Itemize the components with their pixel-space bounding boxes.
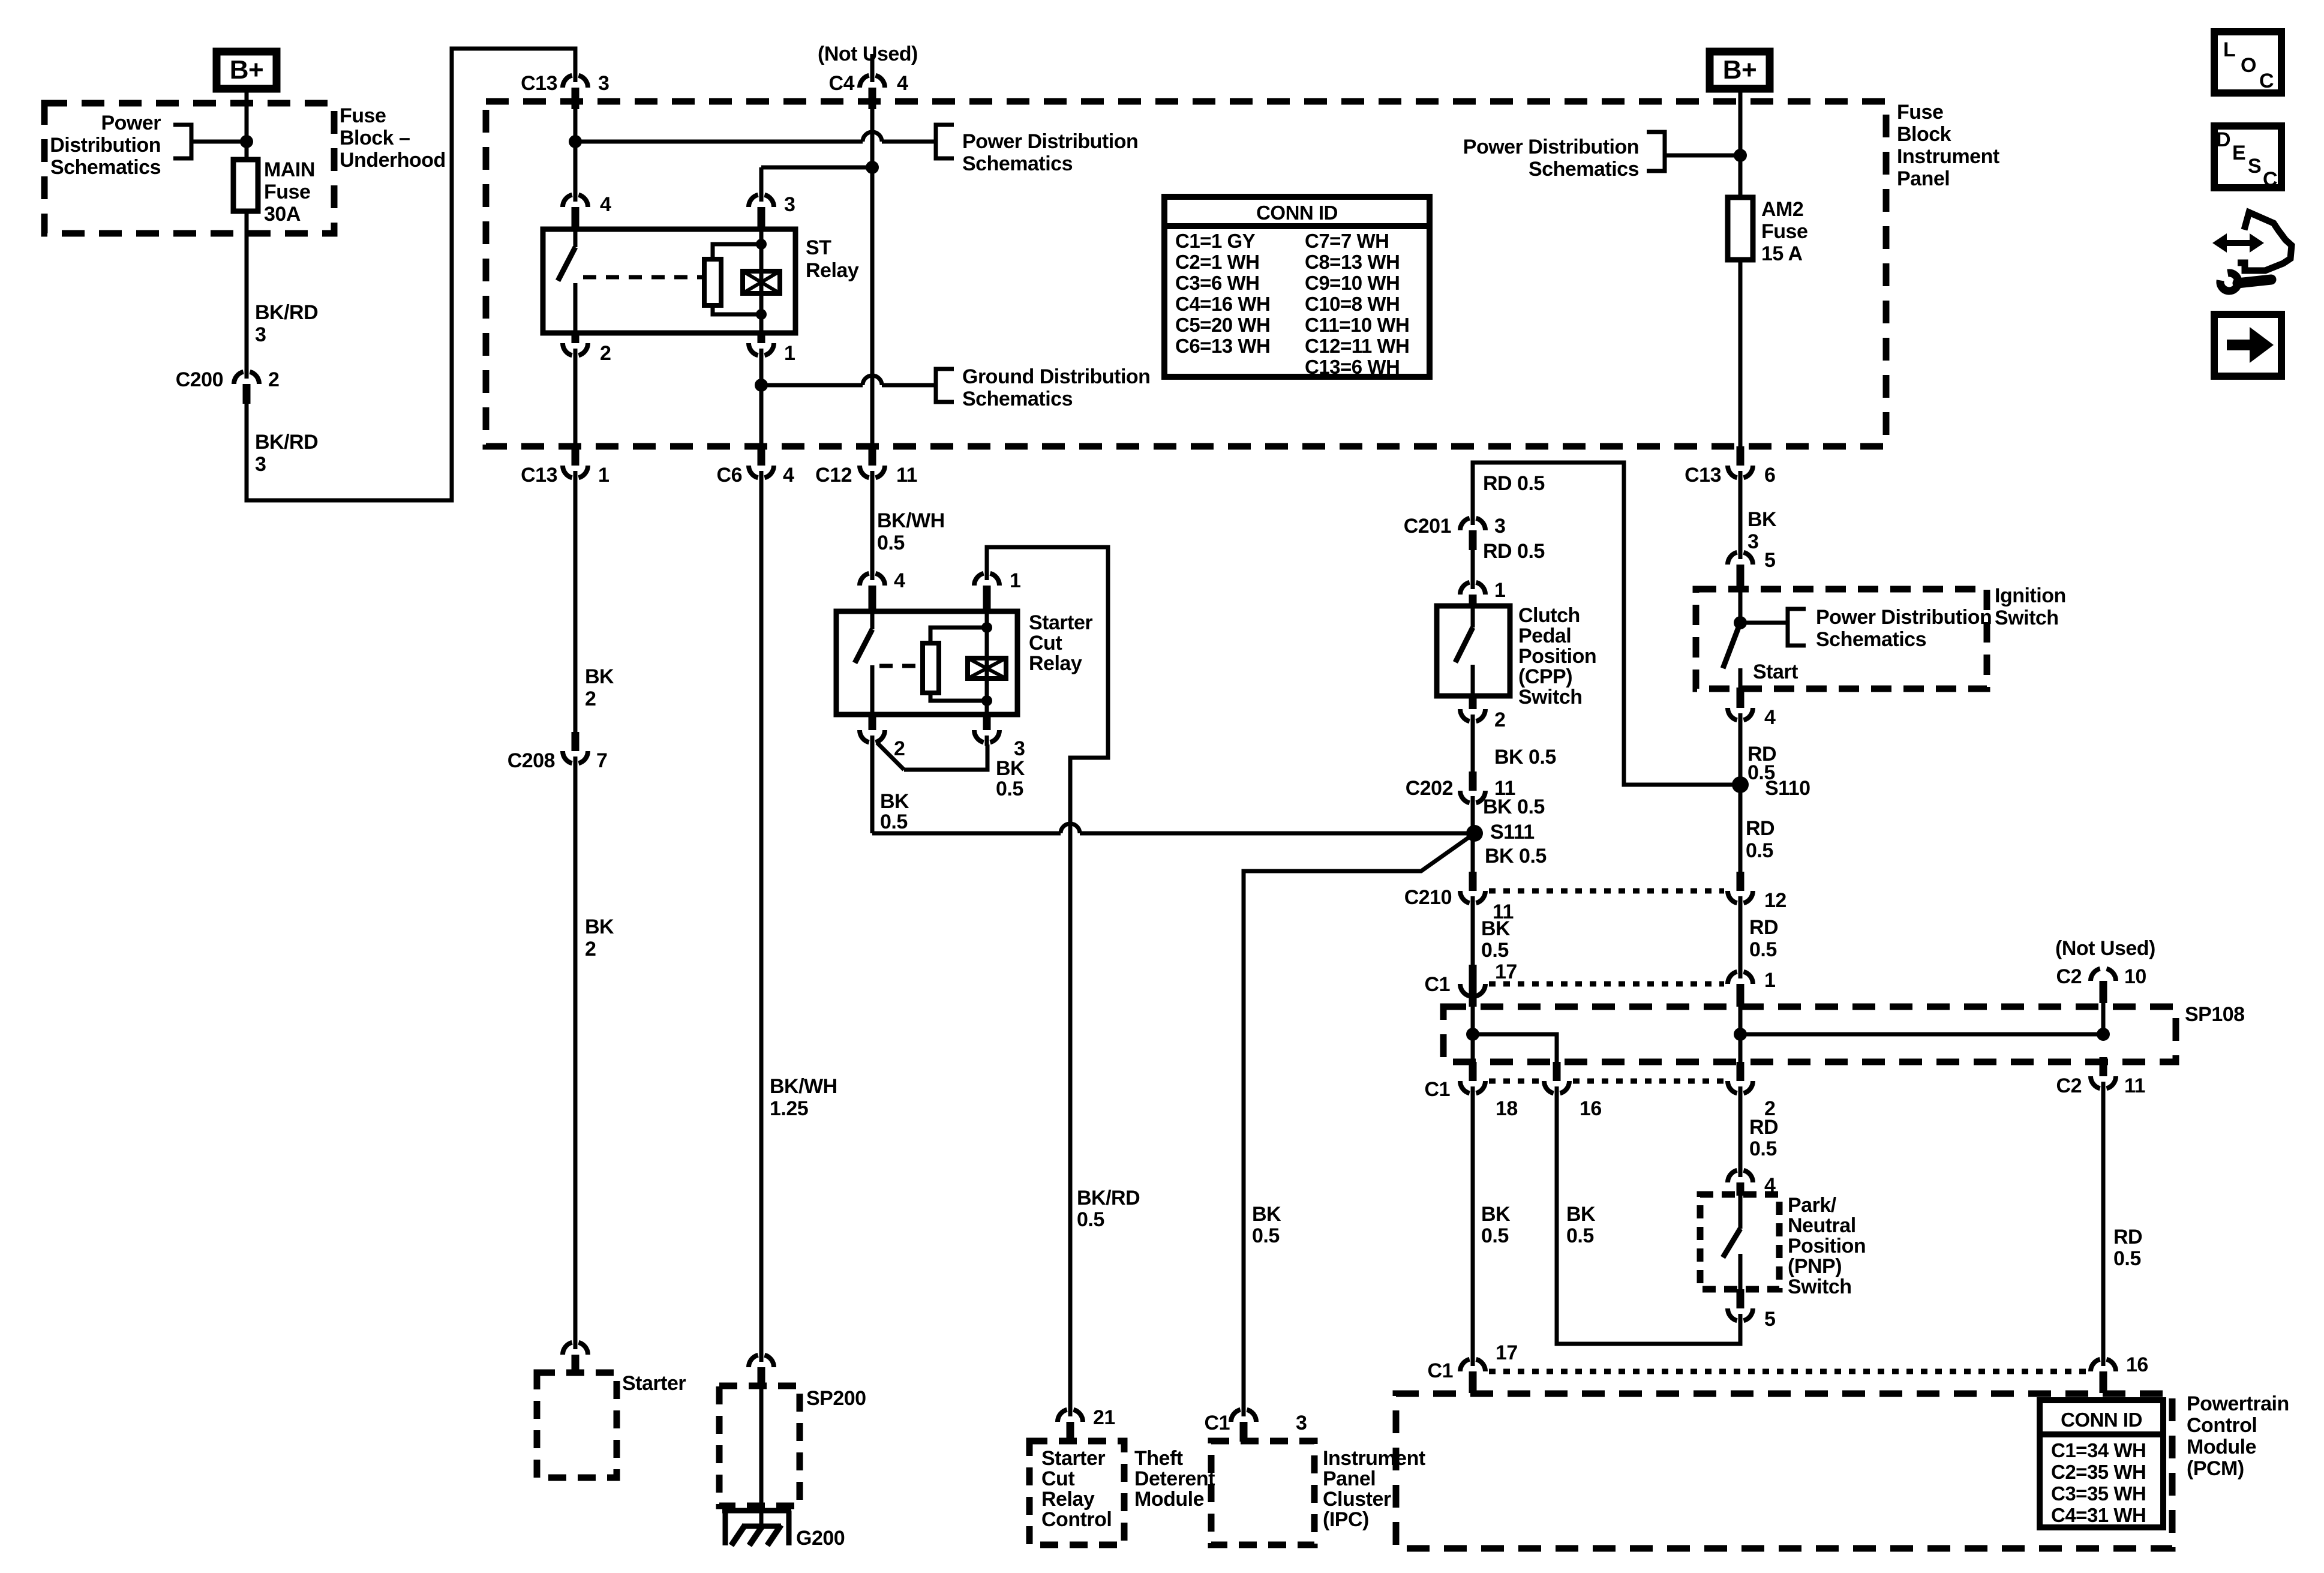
svg-text:C11=10 WH: C11=10 WH xyxy=(1305,314,1409,336)
svg-text:C1=34 WH: C1=34 WH xyxy=(2051,1439,2146,1461)
svg-text:Starter: Starter xyxy=(1041,1447,1105,1470)
svg-text:10: 10 xyxy=(2124,965,2146,988)
wire junction to Ground Distribution bracket (with hop over C4/C12 wire) xyxy=(761,383,863,388)
connector C13 pin 6 (box exit) xyxy=(1739,471,1743,481)
svg-text:Deterent: Deterent xyxy=(1134,1467,1215,1490)
svg-text:C6: C6 xyxy=(717,464,742,487)
svg-text:Schematics: Schematics xyxy=(1816,628,1926,651)
svg-text:Start: Start xyxy=(1753,661,1798,683)
wire S110 loop to C201 (RD 0.5) xyxy=(1473,463,1740,785)
svg-text:11: 11 xyxy=(896,464,917,487)
svg-text:D: D xyxy=(2216,128,2230,151)
svg-text:0.5: 0.5 xyxy=(877,532,905,554)
svg-text:4: 4 xyxy=(1764,706,1776,729)
svg-text:3: 3 xyxy=(598,72,609,95)
fuse AM2 15A xyxy=(1728,197,1753,260)
svg-text:3: 3 xyxy=(784,193,795,216)
connector C210 pin 12 xyxy=(1739,896,1743,906)
wire ignition pin 4 to S110 xyxy=(1739,722,1743,872)
svg-text:C201: C201 xyxy=(1404,515,1451,538)
icon forward arrow box xyxy=(2214,314,2281,376)
svg-text:17: 17 xyxy=(1496,1341,1518,1364)
dashed box Instrument Panel Cluster xyxy=(1211,1441,1314,1545)
wire pin 1 through SP108 xyxy=(1739,1005,1743,1062)
svg-text:C1: C1 xyxy=(1205,1412,1230,1434)
node junction SP108 left xyxy=(1466,1028,1479,1041)
svg-text:3: 3 xyxy=(1494,515,1505,538)
svg-text:(PCM): (PCM) xyxy=(2187,1457,2244,1480)
svg-text:C7=7 WH: C7=7 WH xyxy=(1305,230,1389,252)
svg-text:2: 2 xyxy=(600,342,611,365)
ST relay switch contact xyxy=(574,229,578,247)
wire pin 2 down to S111 bus xyxy=(870,745,875,833)
svg-text:Block: Block xyxy=(1897,123,1951,146)
dashed box Starter Cut Relay Control xyxy=(1029,1441,1124,1545)
dashed box Park/Neutral Position Switch xyxy=(1700,1194,1779,1289)
wire ignition feed to bracket xyxy=(1740,621,1788,625)
connector C202 pin 11 xyxy=(1471,796,1475,806)
connector pin 1 (into SP108) xyxy=(1739,968,1743,978)
ST relay coil resistor xyxy=(713,244,761,259)
svg-text:3: 3 xyxy=(255,323,266,346)
PNP switch pin 4 connector xyxy=(1739,1167,1743,1177)
svg-text:6: 6 xyxy=(1764,464,1775,487)
svg-text:C6=13 WH: C6=13 WH xyxy=(1175,335,1270,357)
svg-text:11: 11 xyxy=(2124,1074,2145,1097)
svg-text:Panel: Panel xyxy=(1323,1467,1376,1490)
wire C4 pin down through box xyxy=(870,107,875,446)
wire MAIN fuse to C200 xyxy=(245,211,249,370)
connector C1 pin 18 xyxy=(1471,1086,1475,1097)
svg-text:(PNP): (PNP) xyxy=(1788,1255,1842,1278)
svg-text:4: 4 xyxy=(783,464,794,487)
svg-text:C208: C208 xyxy=(508,749,555,772)
node junction on B+ feed xyxy=(240,135,253,148)
svg-text:Cut: Cut xyxy=(1029,632,1062,655)
svg-text:Theft: Theft xyxy=(1134,1447,1183,1470)
svg-text:C: C xyxy=(2259,70,2274,92)
svg-text:C13: C13 xyxy=(1685,464,1721,487)
svg-text:Ignition: Ignition xyxy=(1995,584,2066,607)
svg-text:Fuse: Fuse xyxy=(340,104,386,127)
ignition switch contact (Start) xyxy=(1739,589,1743,623)
svg-text:BK: BK xyxy=(1481,1203,1511,1226)
svg-text:C202: C202 xyxy=(1406,777,1453,800)
svg-text:5: 5 xyxy=(1764,549,1775,572)
splice S110 xyxy=(1732,776,1749,793)
node junction SP108 at C2 xyxy=(2097,1028,2110,1041)
svg-text:Pedal: Pedal xyxy=(1518,625,1571,647)
wire bracket to AM2 feed xyxy=(1665,154,1740,158)
svg-text:RD: RD xyxy=(1749,916,1778,939)
svg-text:C: C xyxy=(2263,168,2277,191)
svg-text:Powertrain: Powertrain xyxy=(2187,1392,2289,1415)
svg-text:BK: BK xyxy=(1747,508,1777,531)
svg-text:Switch: Switch xyxy=(1788,1275,1852,1298)
svg-text:C5=20 WH: C5=20 WH xyxy=(1175,314,1270,336)
svg-text:RD: RD xyxy=(2113,1226,2142,1248)
dashed box Powertrain Control Module xyxy=(1396,1394,2172,1548)
svg-text:4: 4 xyxy=(894,569,905,592)
connector C208 pin 7 xyxy=(574,757,578,767)
svg-text:17: 17 xyxy=(1495,960,1517,983)
svg-text:1: 1 xyxy=(1494,579,1505,602)
svg-text:Position: Position xyxy=(1518,645,1596,668)
svg-text:Position: Position xyxy=(1788,1235,1866,1257)
svg-text:SP108: SP108 xyxy=(2185,1003,2245,1026)
wire S111 to C210-11 xyxy=(1471,833,1475,872)
svg-text:0.5: 0.5 xyxy=(2113,1247,2141,1270)
connector C2 pin 11 xyxy=(2101,1082,2106,1092)
svg-text:B+: B+ xyxy=(1723,55,1756,85)
icon hand with double arrow and wrench xyxy=(2221,240,2254,246)
connector C1 pin 17 (into SP108) xyxy=(1471,989,1475,999)
svg-text:4: 4 xyxy=(600,193,611,216)
Starter Cut Relay pin 4 connector xyxy=(870,570,875,580)
node junction on C4 wire xyxy=(866,161,879,174)
dotted line C1-17 row xyxy=(1489,981,1724,987)
svg-text:1: 1 xyxy=(598,464,609,487)
svg-text:C1: C1 xyxy=(1428,1359,1453,1382)
svg-text:C2=1 WH: C2=1 WH xyxy=(1175,251,1259,273)
wire SP108 branch to pin 16 xyxy=(1473,1034,1557,1062)
svg-text:C1: C1 xyxy=(1425,973,1450,996)
svg-text:C200: C200 xyxy=(176,368,223,391)
dotted line C210 row xyxy=(1489,888,1724,894)
svg-text:Schematics: Schematics xyxy=(962,388,1073,410)
svg-text:21: 21 xyxy=(1093,1406,1115,1429)
svg-text:BK: BK xyxy=(1481,917,1511,940)
wire through SP200 to ground xyxy=(759,1386,764,1526)
wire junction to Power Distribution bracket (with hop over C4 wire) xyxy=(575,140,863,144)
svg-text:C4=16 WH: C4=16 WH xyxy=(1175,293,1270,315)
Starter Cut Relay coil resistor xyxy=(930,628,987,643)
wire CPP pin2 to C202 xyxy=(1471,724,1475,772)
node junction on right B+ feed xyxy=(1734,149,1747,162)
ST relay pin 4 connector xyxy=(574,191,578,202)
svg-text:Cut: Cut xyxy=(1041,1467,1074,1490)
Starter Cut Relay coil wire pin1 to pin3 xyxy=(985,611,989,715)
svg-text:C1=1 GY: C1=1 GY xyxy=(1175,230,1256,252)
svg-text:BK/WH: BK/WH xyxy=(877,509,945,532)
svg-text:S111: S111 xyxy=(1490,821,1535,843)
connector pin 16 (PCM) xyxy=(2101,1356,2106,1366)
connector C201 pin 3 xyxy=(1471,515,1475,525)
svg-text:Switch: Switch xyxy=(1995,607,2059,629)
svg-text:BK/RD: BK/RD xyxy=(1077,1187,1140,1209)
svg-text:C1: C1 xyxy=(1425,1078,1450,1101)
connector C4 pin 4 (not used) xyxy=(870,54,875,73)
ground G200 xyxy=(722,1508,791,1514)
bracket Ground Distribution Schematics xyxy=(936,369,954,402)
svg-text:2: 2 xyxy=(894,737,905,760)
ST relay mechanical dashed link xyxy=(583,275,704,280)
wire C13-1 to C208 xyxy=(574,480,578,732)
svg-text:Fuse: Fuse xyxy=(1761,220,1807,243)
wire ST pin1 down to ground distribution junction xyxy=(759,357,764,446)
dotted line PCM C1-17 to 16 row xyxy=(1489,1369,2086,1374)
svg-text:0.5: 0.5 xyxy=(1481,939,1509,962)
svg-text:BK: BK xyxy=(585,915,614,938)
wire C1-17 through SP108 to C1-18 xyxy=(1469,984,1477,1007)
svg-text:Instrument: Instrument xyxy=(1323,1447,1425,1470)
svg-text:4: 4 xyxy=(897,72,908,95)
wire AM2 fuse to C13-6 xyxy=(1739,260,1743,446)
bracket Power Distribution Schematics (top box) xyxy=(936,125,954,158)
svg-text:C13=6 WH: C13=6 WH xyxy=(1305,356,1400,378)
icon DESC box xyxy=(2214,126,2281,188)
connector pin 2 (SP108 exit) xyxy=(1739,1086,1743,1097)
svg-text:0.5: 0.5 xyxy=(1566,1224,1594,1247)
ST relay pin 1 connector xyxy=(759,349,764,359)
svg-text:MAIN: MAIN xyxy=(264,158,315,181)
dashed box Ignition Switch xyxy=(1696,589,1987,689)
wire C13-3 down to ST relay pin 4 xyxy=(574,109,578,193)
svg-text:0.5: 0.5 xyxy=(1749,938,1777,961)
svg-text:Park/: Park/ xyxy=(1788,1194,1837,1217)
svg-text:Starter: Starter xyxy=(622,1372,686,1395)
svg-text:2: 2 xyxy=(268,368,279,391)
svg-text:C3=6 WH: C3=6 WH xyxy=(1175,272,1259,294)
Starter Cut Relay switch contact xyxy=(870,611,875,629)
svg-text:CONN ID: CONN ID xyxy=(2061,1409,2142,1431)
wire C2-10 pin to SP108 bus xyxy=(2101,1003,2106,1034)
svg-text:Module: Module xyxy=(1134,1488,1204,1511)
svg-text:BK: BK xyxy=(996,757,1025,780)
connector C200 pin 2 xyxy=(245,368,249,379)
wire C6-4 to SP200 xyxy=(759,480,764,1353)
svg-text:3: 3 xyxy=(1296,1412,1307,1434)
svg-text:Schematics: Schematics xyxy=(50,156,161,179)
svg-text:1: 1 xyxy=(1764,969,1775,992)
CPP switch contact xyxy=(1471,606,1475,628)
wire C12-11 to Starter Cut Relay pin 4 xyxy=(870,480,875,571)
svg-text:AM2: AM2 xyxy=(1761,198,1803,221)
wire bracket to B+ feed xyxy=(191,140,247,144)
svg-text:BK: BK xyxy=(585,665,614,688)
svg-text:2: 2 xyxy=(585,938,596,960)
svg-text:BK: BK xyxy=(1252,1203,1281,1226)
svg-text:3: 3 xyxy=(255,453,266,476)
node junction SP108 right xyxy=(1734,1028,1747,1041)
svg-text:BK 0.5: BK 0.5 xyxy=(1485,845,1547,867)
dashed box Starter xyxy=(537,1373,617,1478)
ST relay coil wire pin3 to pin1 xyxy=(759,229,764,333)
switch Clutch Pedal Position box xyxy=(1437,606,1510,696)
wire C202 to S111 xyxy=(1471,805,1475,833)
svg-text:Relay: Relay xyxy=(806,259,859,282)
wire pin16 down and over to PNP pin 5 xyxy=(1557,1095,1740,1344)
node junction ST pin1 / ground distribution xyxy=(755,379,768,392)
dashed box Fuse Block Instrument Panel xyxy=(486,101,1886,446)
wire pin 2 to PNP switch pin 4 xyxy=(1739,1095,1743,1168)
CPP switch pin 1 connector xyxy=(1471,579,1475,589)
wire right B+ to AM2 fuse xyxy=(1739,92,1743,197)
wire C200 down, right and up to C13 pin 3 xyxy=(247,49,575,500)
svg-text:ST: ST xyxy=(806,236,831,259)
svg-text:3: 3 xyxy=(1747,530,1758,553)
connector C210 pin 11 xyxy=(1471,896,1475,906)
svg-text:Block –: Block – xyxy=(340,127,410,149)
svg-text:0.5: 0.5 xyxy=(880,810,908,833)
svg-text:SP200: SP200 xyxy=(806,1387,866,1410)
svg-text:Schematics: Schematics xyxy=(1529,158,1639,181)
svg-text:RD: RD xyxy=(1749,1116,1778,1139)
svg-text:Fuse: Fuse xyxy=(264,181,310,203)
icon LOC box xyxy=(2214,32,2281,93)
connector at Starter xyxy=(574,1339,578,1349)
svg-text:30A: 30A xyxy=(264,203,301,226)
ST relay pin 3 connector xyxy=(759,191,764,202)
svg-text:RD: RD xyxy=(1746,817,1774,840)
dotted line C1-18/16/2 row xyxy=(1489,1079,1541,1084)
svg-text:Cluster: Cluster xyxy=(1323,1488,1391,1511)
fuse MAIN 30A xyxy=(233,160,258,211)
svg-text:BK/RD: BK/RD xyxy=(255,301,318,324)
svg-text:2: 2 xyxy=(585,688,596,710)
bracket Power Distribution Schematics (right B+) xyxy=(1647,132,1665,171)
connector pin 21 Theft Deterrent Module xyxy=(1068,1406,1073,1416)
ST relay pin 2 connector xyxy=(574,349,578,359)
Starter Cut Relay pin 1 connector xyxy=(985,570,989,580)
connector pin 16 (SP108 branch) xyxy=(1555,1086,1559,1097)
svg-text:18: 18 xyxy=(1496,1097,1518,1120)
svg-text:C210: C210 xyxy=(1404,886,1452,909)
svg-text:C4=31 WH: C4=31 WH xyxy=(2051,1504,2146,1526)
svg-text:0.5: 0.5 xyxy=(996,778,1023,800)
wire C201 to CPP switch pin 1 xyxy=(1471,550,1475,580)
PNP switch contact xyxy=(1739,1194,1743,1229)
wire C2-11 to PCM pin 16 (RD 0.5) xyxy=(2101,1091,2106,1357)
svg-text:1.25: 1.25 xyxy=(770,1097,808,1120)
wire C208 to Starter xyxy=(574,766,578,1340)
ignition switch pin 5 connector xyxy=(1739,549,1743,559)
wire ST pin2 to C13-1 xyxy=(574,357,578,446)
battery feed terminal B+ (left) xyxy=(217,52,277,89)
dashed box Fuse Block - Underhood xyxy=(44,103,334,233)
connector C13 pin 1 (box exit) xyxy=(574,471,578,481)
wire Starter Cut Relay pin1 loop to Theft Deterrent Module xyxy=(987,547,1108,1407)
svg-text:C12: C12 xyxy=(815,464,852,487)
svg-text:Power: Power xyxy=(101,112,161,134)
svg-text:Power Distribution: Power Distribution xyxy=(1816,606,1992,629)
svg-text:Control: Control xyxy=(2187,1414,2257,1437)
svg-text:S: S xyxy=(2248,155,2261,178)
svg-text:Fuse: Fuse xyxy=(1897,101,1943,124)
svg-text:S110: S110 xyxy=(1765,777,1810,800)
svg-text:7: 7 xyxy=(596,749,607,772)
wire S111 bus (with hop at theft deterrent wire) xyxy=(872,831,1061,836)
svg-text:Distribution: Distribution xyxy=(50,134,161,157)
svg-text:BK/WH: BK/WH xyxy=(770,1075,837,1098)
svg-text:Clutch: Clutch xyxy=(1518,604,1580,627)
svg-text:C13: C13 xyxy=(521,464,557,487)
wire S111 diagonal branch to IPC xyxy=(1244,833,1475,1407)
Starter Cut Relay pin 2 connector xyxy=(870,736,875,746)
svg-text:12: 12 xyxy=(1764,889,1786,912)
svg-text:Panel: Panel xyxy=(1897,167,1950,190)
bracket Power Distribution Schematics (ignition) xyxy=(1788,609,1806,646)
relay Starter Cut Relay box xyxy=(836,611,1017,715)
svg-text:0.5: 0.5 xyxy=(1077,1208,1104,1231)
svg-text:Module: Module xyxy=(2187,1436,2256,1458)
connector at SP200 xyxy=(759,1352,764,1362)
svg-text:Underhood: Underhood xyxy=(340,149,446,172)
svg-text:5: 5 xyxy=(1764,1308,1775,1331)
svg-text:C3=35 WH: C3=35 WH xyxy=(2051,1482,2146,1505)
svg-text:BK 0.5: BK 0.5 xyxy=(1494,746,1556,769)
wire C1-18 to PCM C1-17 xyxy=(1471,1095,1475,1357)
svg-text:2: 2 xyxy=(1494,709,1505,731)
Starter Cut Relay coil crossed-box xyxy=(968,658,1006,679)
svg-text:Switch: Switch xyxy=(1518,686,1583,709)
svg-text:Schematics: Schematics xyxy=(962,152,1073,175)
Starter Cut Relay pin 3 connector xyxy=(985,736,989,746)
PNP switch pin 5 connector xyxy=(1739,1314,1743,1324)
dashed box splice pack SP108 xyxy=(1443,1007,2176,1062)
svg-text:C12=11 WH: C12=11 WH xyxy=(1305,335,1409,357)
relay ST Relay box xyxy=(543,229,795,333)
svg-text:Power Distribution: Power Distribution xyxy=(1463,136,1639,158)
svg-text:G200: G200 xyxy=(796,1527,845,1550)
svg-text:Relay: Relay xyxy=(1029,652,1082,675)
svg-text:0.5: 0.5 xyxy=(1481,1224,1509,1247)
svg-text:O: O xyxy=(2241,54,2256,77)
svg-text:E: E xyxy=(2232,142,2245,164)
battery feed terminal B+ (right) xyxy=(1710,52,1770,89)
svg-text:1: 1 xyxy=(784,342,795,365)
wire C13-6 to ignition switch pin 5 xyxy=(1739,480,1743,550)
connector C1 pin 17 (PCM) xyxy=(1471,1356,1475,1366)
CPP switch pin 2 connector xyxy=(1471,715,1475,725)
node junction below C13-3 xyxy=(569,135,582,148)
svg-text:0.5: 0.5 xyxy=(1746,839,1773,862)
wire pin2 to pin3 jumper xyxy=(877,743,904,770)
wire B+ to MAIN fuse xyxy=(245,92,249,160)
svg-text:C2: C2 xyxy=(2056,965,2082,988)
splice S111 xyxy=(1466,825,1483,842)
svg-text:(Not Used): (Not Used) xyxy=(818,43,918,65)
ignition switch pin 4 connector xyxy=(1739,713,1743,724)
svg-text:BK: BK xyxy=(880,790,909,813)
svg-text:15 A: 15 A xyxy=(1761,242,1803,265)
svg-text:Ground Distribution: Ground Distribution xyxy=(962,365,1150,388)
svg-text:BK: BK xyxy=(1566,1203,1596,1226)
connector C2 pin 10 (not used) xyxy=(2091,968,2116,981)
svg-text:Power Distribution: Power Distribution xyxy=(962,130,1138,153)
svg-text:C10=8 WH: C10=8 WH xyxy=(1305,293,1400,315)
svg-text:(Not Used): (Not Used) xyxy=(2055,937,2155,960)
connector C13 pin 3 (top entry) xyxy=(574,72,578,82)
svg-text:BK/RD: BK/RD xyxy=(255,431,318,454)
wire C210-11 to C1-17 xyxy=(1471,905,1475,965)
svg-text:0.5: 0.5 xyxy=(1749,1137,1777,1160)
svg-text:Relay: Relay xyxy=(1041,1488,1095,1511)
svg-text:(CPP): (CPP) xyxy=(1518,665,1572,688)
svg-text:C2: C2 xyxy=(2056,1074,2082,1097)
table CONN ID (fuse block) xyxy=(1164,197,1430,377)
svg-text:C9=10 WH: C9=10 WH xyxy=(1305,272,1400,294)
svg-text:Starter: Starter xyxy=(1029,611,1092,634)
svg-text:C13: C13 xyxy=(521,72,557,95)
svg-text:BK 0.5: BK 0.5 xyxy=(1483,795,1545,818)
svg-text:L: L xyxy=(2223,38,2235,61)
svg-text:C4: C4 xyxy=(829,72,855,95)
svg-text:1: 1 xyxy=(1010,569,1020,592)
svg-text:16: 16 xyxy=(2126,1353,2148,1376)
svg-text:C8=13 WH: C8=13 WH xyxy=(1305,251,1400,273)
svg-text:RD 0.5: RD 0.5 xyxy=(1483,540,1545,563)
